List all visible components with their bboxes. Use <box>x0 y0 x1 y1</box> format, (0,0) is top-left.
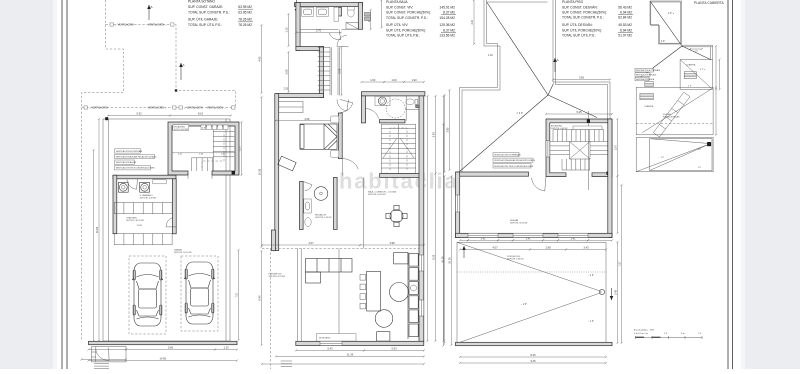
dimension line <box>718 59 720 91</box>
door swing <box>166 218 176 227</box>
stair up arrow dashed <box>202 132 224 168</box>
wall <box>296 47 324 51</box>
wall <box>380 120 406 123</box>
dimension line <box>295 31 342 33</box>
svg-text:4.07: 4.07 <box>492 246 498 250</box>
dimension line <box>565 248 607 250</box>
nightstand lower <box>331 150 339 157</box>
svg-text:PLANTA PISO: PLANTA PISO <box>562 0 584 4</box>
pb bottom-left steps <box>281 361 292 367</box>
svg-text:56.43 M2: 56.43 M2 <box>618 5 632 9</box>
svg-text:4.92: 4.92 <box>258 56 262 62</box>
door swing <box>329 29 341 39</box>
wall <box>296 341 424 345</box>
sideboard bottom <box>317 334 357 342</box>
drain circle <box>599 289 604 294</box>
electrical panel row <box>201 125 228 130</box>
svg-text:8.16: 8.16 <box>198 112 204 116</box>
dimension line <box>125 348 216 350</box>
svg-text:6.94 M2: 6.94 M2 <box>620 28 632 32</box>
svg-text:6.94 M2: 6.94 M2 <box>620 11 632 15</box>
roof junction lines <box>682 45 713 59</box>
dimension line <box>237 249 239 341</box>
svg-text:TOTAL SUP. ÚTIL P.B.:: TOTAL SUP. ÚTIL P.B.: <box>386 34 420 38</box>
dining table long <box>367 271 381 311</box>
svg-text:4.07: 4.07 <box>308 241 314 245</box>
dimension line <box>360 81 385 83</box>
dimension line <box>443 94 445 173</box>
svg-text:1.63: 1.63 <box>370 78 376 82</box>
parking bay 1 dashed <box>129 256 166 334</box>
svg-text:PLANTA BAJA: PLANTA BAJA <box>386 0 408 4</box>
dimension line <box>715 86 717 136</box>
car 1 (top view) <box>132 263 163 326</box>
living west thin wall <box>298 249 302 342</box>
svg-text:5.60: 5.60 <box>168 346 174 350</box>
dimension line <box>442 123 444 342</box>
svg-text:10.30: 10.30 <box>258 168 262 175</box>
dimension line <box>80 358 127 360</box>
svg-text:Escala gráfica - 1/50: Escala gráfica - 1/50 <box>634 329 655 332</box>
black corner blocks <box>607 172 611 176</box>
svg-text:1.41: 1.41 <box>525 237 531 241</box>
wall <box>419 96 424 341</box>
wall <box>608 119 612 238</box>
top flight treads <box>552 130 554 142</box>
svg-text:7.57: 7.57 <box>235 292 239 298</box>
svg-text:VENTILACIÓN AGUAS FECALS/PLUVI: VENTILACIÓN AGUAS FECALS/PLUVIALS <box>494 159 535 162</box>
wall <box>276 94 324 98</box>
svg-text:A: A <box>151 5 153 9</box>
corner block <box>105 117 108 120</box>
dimension line <box>359 244 425 246</box>
ventilation boxed label <box>635 73 650 77</box>
wall <box>334 177 338 229</box>
svg-text:ESCALERA: ESCALERA <box>174 125 186 128</box>
svg-text:6.23: 6.23 <box>432 254 436 260</box>
entry steps <box>94 364 109 372</box>
section marker A <box>296 0 298 13</box>
dimension line <box>434 172 436 342</box>
svg-text:11.36: 11.36 <box>347 353 354 357</box>
dimension line <box>381 0 383 29</box>
svg-text:154.28 M2: 154.28 M2 <box>439 16 455 20</box>
garage plan outer thin boundary <box>103 119 230 341</box>
svg-text:1.41: 1.41 <box>480 237 486 241</box>
pp stair void with cross <box>550 130 609 171</box>
dimension line <box>443 175 445 344</box>
door swing hall lower <box>337 100 349 111</box>
wall <box>362 92 425 96</box>
svg-text:CUBERTA: CUBERTA <box>686 64 696 67</box>
round table 2 <box>375 310 393 328</box>
roof S1 outline <box>650 1 682 44</box>
svg-text:0 m 0.5 m 1 m: 0 m 0.5 m 1 m <box>634 333 648 335</box>
threshold stair exit <box>188 175 212 179</box>
svg-text:78.26 M2: 78.26 M2 <box>238 18 252 22</box>
dimension line <box>512 239 544 241</box>
junction dot <box>175 89 177 91</box>
svg-text:PLANTA CUBIERTA: PLANTA CUBIERTA <box>694 1 724 5</box>
dimension line <box>459 248 531 250</box>
svg-text:10.30: 10.30 <box>441 256 445 263</box>
door swing <box>532 177 546 191</box>
laundry room walls <box>113 175 176 234</box>
shower circle bath3 <box>314 187 328 201</box>
centre section line <box>588 111 590 190</box>
svg-text:133.56 M2: 133.56 M2 <box>439 34 455 38</box>
dimension line <box>240 121 242 176</box>
dimension line <box>214 348 238 350</box>
svg-text:TOTAL SUP. ÚTIL P.S.:: TOTAL SUP. ÚTIL P.S.: <box>188 23 222 27</box>
svg-text:← VENTILACIÓN: ← VENTILACIÓN <box>115 24 134 27</box>
dimension line <box>340 46 342 96</box>
svg-text:↗ 4 P: ↗ 4 P <box>516 111 523 115</box>
wall symbols <box>365 13 371 17</box>
shower tray bath1 <box>346 23 359 30</box>
svg-text:62.84 M2: 62.84 M2 <box>618 16 632 20</box>
door swing <box>127 179 137 189</box>
svg-text:11.93: 11.93 <box>137 225 143 227</box>
wall <box>380 174 424 178</box>
dimension line <box>260 250 262 346</box>
svg-text:SUP. ÚTIL PORCHE(50%):: SUP. ÚTIL PORCHE(50%): <box>562 28 602 32</box>
window gaps right wall <box>419 255 424 271</box>
svg-text:VENTILACIÓN →: VENTILACIÓN → <box>148 24 167 27</box>
svg-text:S.ÚTIL 3.62 M2: S.ÚTIL 3.62 M2 <box>174 128 189 131</box>
dimension line <box>689 48 703 50</box>
bottom flight treads <box>561 159 563 170</box>
dimension line <box>587 239 613 241</box>
chimney <box>707 142 711 146</box>
solar panel S3 <box>684 72 696 79</box>
dimension line <box>616 241 618 344</box>
dimension line <box>370 9 372 31</box>
svg-text:3.43: 3.43 <box>583 246 589 250</box>
left grey margin band <box>0 0 54 369</box>
svg-text:63.95 M2: 63.95 M2 <box>238 5 252 9</box>
svg-text:TOTAL SUP. CONSTR. P.S.:: TOTAL SUP. CONSTR. P.S.: <box>562 16 604 20</box>
svg-text:8.37 M2: 8.37 M2 <box>443 11 455 15</box>
laundry counter <box>153 180 166 184</box>
dimension line <box>529 248 567 250</box>
svg-text:51.97 M2: 51.97 M2 <box>618 34 632 38</box>
wall <box>296 3 300 51</box>
dimension line <box>552 78 611 80</box>
svg-text:PLANTA SÓTANO: PLANTA SÓTANO <box>188 0 215 4</box>
svg-text:SUP.ÚTIL 6.19 M2: SUP.ÚTIL 6.19 M2 <box>315 216 332 219</box>
svg-text:SUP.ÚTIL 6.94 M2: SUP.ÚTIL 6.94 M2 <box>507 258 524 261</box>
svg-text:SUP.ÚTIL 4.36 M2: SUP.ÚTIL 4.36 M2 <box>140 196 157 199</box>
door swing <box>343 159 359 176</box>
svg-text:SUP. CONST. DESVÁN:: SUP. CONST. DESVÁN: <box>562 5 598 9</box>
shelf row 2 <box>114 234 172 245</box>
section marker A <box>180 63 182 80</box>
dimension line <box>426 95 428 342</box>
svg-text:1.00: 1.00 <box>391 78 397 82</box>
pp stair room walls <box>546 119 612 177</box>
svg-text:45.53 M2: 45.53 M2 <box>618 23 632 27</box>
svg-text:VENTILACIÓN AGUAS FECALS/PLUVI: VENTILACIÓN AGUAS FECALS/PLUVIALS <box>116 156 157 159</box>
porch edge dashed vertical <box>270 249 272 370</box>
dimension line <box>557 239 589 241</box>
dimension line <box>87 359 238 361</box>
wall <box>358 3 362 30</box>
ventilation boxed label <box>635 77 649 81</box>
door swing bath2 <box>366 109 379 123</box>
bath1 floor edge <box>300 28 338 30</box>
dimension line <box>107 114 171 116</box>
wall <box>456 172 460 238</box>
svg-text:habitaclia: habitaclia <box>339 169 458 194</box>
breakfast table <box>386 205 407 226</box>
left flight treads <box>550 141 570 143</box>
dimension line <box>275 355 425 357</box>
living ceiling line <box>338 249 340 342</box>
wall <box>456 172 529 176</box>
svg-text:VENTILACIÓN SOTERRANI: VENTILACIÓN SOTERRANI <box>636 69 661 72</box>
dimension line <box>274 120 339 122</box>
diagonals from junction <box>637 46 711 80</box>
toilet bath1 <box>347 8 354 17</box>
wall <box>456 342 613 345</box>
window in desvan left wall <box>456 195 460 212</box>
section marker A <box>554 58 556 72</box>
svg-text:SUP.ÚTIL 8.37 M2: SUP.ÚTIL 8.37 M2 <box>269 275 286 278</box>
dimension line <box>363 349 425 351</box>
svg-text:← 1 P: ← 1 P <box>658 157 665 159</box>
window gap pp stair left wall <box>546 141 550 158</box>
roof S3 box <box>680 60 712 90</box>
svg-text:3.43: 3.43 <box>614 289 618 295</box>
garage entry structure <box>92 347 127 362</box>
svg-text:3.98: 3.98 <box>389 241 395 245</box>
stair direction dashed <box>390 128 407 170</box>
door swing hall upper <box>337 35 349 46</box>
roof S5 bottom section <box>636 138 713 172</box>
svg-text:VENTILACIÓN AGUA: VENTILACIÓN AGUA <box>116 161 137 164</box>
svg-text:1.20: 1.20 <box>223 346 229 350</box>
label strip <box>573 126 602 130</box>
svg-text:2.07: 2.07 <box>614 144 618 150</box>
kitchen counter <box>394 253 419 339</box>
shower dashed circle <box>386 99 405 118</box>
svg-text:SUP.ÚTIL 18.76 M2: SUP.ÚTIL 18.76 M2 <box>126 219 144 222</box>
ventilation label <box>84 106 87 109</box>
ventilation boxed labels <box>115 149 141 153</box>
wall <box>362 96 366 123</box>
svg-text:2.98: 2.98 <box>545 246 551 250</box>
sofa L <box>306 259 353 284</box>
parking bay 2 dashed <box>181 256 218 331</box>
svg-text:MOBILIARIO: MOBILIARIO <box>319 337 331 340</box>
svg-text:3.85: 3.85 <box>446 127 450 133</box>
dimension line <box>459 239 469 241</box>
window <box>468 233 498 237</box>
ventilation boxed label <box>493 164 531 168</box>
svg-text:↑ 1 P: ↑ 1 P <box>588 320 594 323</box>
garage door swing <box>96 348 109 361</box>
dashed plot boundary <box>82 0 236 341</box>
dimension line <box>92 149 94 342</box>
dimension line <box>295 349 365 351</box>
roof S4 middle section <box>636 87 713 135</box>
dimension line <box>87 348 127 350</box>
svg-text:7.57: 7.57 <box>618 261 622 267</box>
shelf row 1 <box>114 203 172 214</box>
dimension line <box>542 239 559 241</box>
svg-text:4 P: 4 P <box>661 40 665 43</box>
svg-text:8.37 M2: 8.37 M2 <box>443 28 455 32</box>
sink 1 <box>302 7 314 16</box>
dimension line <box>616 118 618 177</box>
wall symbol block <box>416 105 420 108</box>
svg-text:SUP.ÚTIL 39.11 M2: SUP.ÚTIL 39.11 M2 <box>510 222 528 225</box>
dimension line <box>169 114 232 116</box>
svg-text:9.25: 9.25 <box>530 359 536 363</box>
svg-text:SUP. ÚTIL VIV:: SUP. ÚTIL VIV: <box>386 23 408 27</box>
bottom wall of garage <box>89 341 238 344</box>
svg-text:VENTILACIÓN →: VENTILACIÓN → <box>148 107 167 110</box>
svg-text:1.18: 1.18 <box>488 54 493 57</box>
svg-text:A: A <box>557 58 559 62</box>
text block: PLANTA BAJA <box>386 0 456 38</box>
sink bath3 <box>304 199 312 213</box>
panel S4 <box>640 94 653 100</box>
escalera label box <box>173 125 189 131</box>
dimension line <box>620 184 622 344</box>
svg-text:SUP. CONST. PORCHE(50%):: SUP. CONST. PORCHE(50%): <box>562 11 607 15</box>
stair flight (basement) <box>192 126 235 171</box>
ventilation boxed label <box>493 153 519 157</box>
roof hip diagonals <box>460 3 598 172</box>
svg-text:4 P ↘: 4 P ↘ <box>668 12 674 15</box>
stair room walls <box>168 122 239 175</box>
svg-text:4 P ↙: 4 P ↙ <box>700 68 706 71</box>
ventilation label <box>179 106 182 109</box>
svg-text:1.93: 1.93 <box>411 78 417 82</box>
svg-text:← VENTILACIÓN: ← VENTILACIÓN <box>89 107 108 110</box>
svg-text:63.95 M2: 63.95 M2 <box>238 10 252 14</box>
text block: PLANTA PISO <box>562 0 633 38</box>
dimension line <box>403 81 425 83</box>
small panel below labels <box>645 82 654 87</box>
section marker A <box>148 5 150 20</box>
svg-text:SUP. ÚTIL DESVÁN:: SUP. ÚTIL DESVÁN: <box>562 23 593 27</box>
svg-text:VENTILACIÓN →: VENTILACIÓN → <box>207 107 226 110</box>
door swing <box>303 182 312 191</box>
hall partition line <box>362 177 364 248</box>
svg-text:TOTAL SUP. CONSTR. P.S.:: TOTAL SUP. CONSTR. P.S.: <box>386 16 428 20</box>
cooktop <box>377 332 390 341</box>
svg-text:SUP.ÚTIL 52.15 M2: SUP.ÚTIL 52.15 M2 <box>174 251 192 254</box>
wall <box>300 182 304 230</box>
svg-text:78.26 M2: 78.26 M2 <box>238 23 252 27</box>
dimension line <box>473 0 475 45</box>
svg-text:10.30: 10.30 <box>448 257 452 264</box>
sheet border right double line <box>727 0 729 369</box>
svg-text:← VENTILACIÓN: ← VENTILACIÓN <box>184 107 203 110</box>
bath2 counter with sink <box>375 96 390 105</box>
dimension line <box>383 81 405 83</box>
dryer <box>140 182 150 192</box>
dimension line <box>467 239 499 241</box>
svg-text:SUP.ÚTIL 4.62 M2: SUP.ÚTIL 4.62 M2 <box>551 127 568 130</box>
svg-text:2.08: 2.08 <box>338 68 342 74</box>
svg-text:5.43: 5.43 <box>327 347 333 351</box>
stair flight pb lower <box>381 124 415 173</box>
scale bar <box>634 329 702 336</box>
window gap bottom wall <box>320 341 342 345</box>
dimension line <box>98 118 100 342</box>
porch bench <box>277 102 303 113</box>
bath1 divider <box>338 8 341 17</box>
svg-text:8.25: 8.25 <box>530 353 536 357</box>
stair flight pb upper <box>318 47 340 95</box>
skylight / stair shaft hatch <box>653 92 690 137</box>
svg-text:FOTOVOLTAICAS: FOTOVOLTAICAS <box>663 116 680 119</box>
dimension line <box>261 244 361 246</box>
svg-text:125.36 M2: 125.36 M2 <box>439 23 455 27</box>
svg-text:5 m: 5 m <box>681 333 685 335</box>
dimension line <box>434 95 436 175</box>
window <box>558 233 588 237</box>
section marker <box>611 288 613 300</box>
bed <box>300 124 337 149</box>
toilet bath2 <box>406 99 414 105</box>
svg-text:TOTAL SUP. CONSTR. P.S.:: TOTAL SUP. CONSTR. P.S.: <box>188 10 230 14</box>
car 2 (top view) <box>184 262 215 324</box>
wall <box>295 3 363 7</box>
ventilation boxed label <box>493 158 533 162</box>
svg-text:5.45: 5.45 <box>576 110 582 114</box>
washer <box>118 182 128 192</box>
svg-text:TOTAL SUP. ÚTIL P.S.:: TOTAL SUP. ÚTIL P.S.: <box>562 34 596 38</box>
svg-text:A: A <box>183 63 185 67</box>
chaise rotated <box>278 156 296 171</box>
svg-text:CUBERTA: CUBERTA <box>644 105 654 108</box>
window <box>513 233 543 237</box>
chairs <box>360 275 366 309</box>
svg-text:SUP. CONST. PORCHE(50%):: SUP. CONST. PORCHE(50%): <box>386 11 431 15</box>
svg-text:1.13: 1.13 <box>285 27 289 33</box>
pp roof boundary thin double <box>460 0 611 172</box>
toilet bath3 <box>305 218 311 227</box>
round table 1 <box>390 283 409 302</box>
dimension line <box>459 356 607 358</box>
dimension line <box>616 175 618 234</box>
nightstand upper <box>331 116 339 123</box>
terrace outline <box>457 242 606 343</box>
dimension line <box>287 51 289 93</box>
right flight treads <box>590 141 608 143</box>
svg-text:SUP. ÚTIL PORCHE(50%):: SUP. ÚTIL PORCHE(50%): <box>386 28 426 32</box>
dimension line <box>459 362 607 364</box>
svg-text:VENTILACIÓN AGUA: VENTILACIÓN AGUA <box>636 78 655 81</box>
porch dashed edge <box>262 248 424 250</box>
dimension line <box>287 13 289 47</box>
column (filled) <box>232 171 235 174</box>
roof S1 hip diagonal <box>650 1 682 46</box>
svg-text:VENTILACIÓN TELECOMUNICACIONES: VENTILACIÓN TELECOMUNICACIONES <box>116 167 155 170</box>
sink circle kitchen <box>411 285 417 291</box>
right grey margin band <box>744 0 800 369</box>
text block: PLANTA S&#211;TANO <box>188 0 253 27</box>
svg-text:SUP. ÚTIL GARAJE:: SUP. ÚTIL GARAJE: <box>188 18 218 22</box>
dimension line <box>261 363 425 365</box>
wall <box>272 230 276 251</box>
svg-text:SUP. CONST. VIV:: SUP. CONST. VIV: <box>386 5 413 9</box>
